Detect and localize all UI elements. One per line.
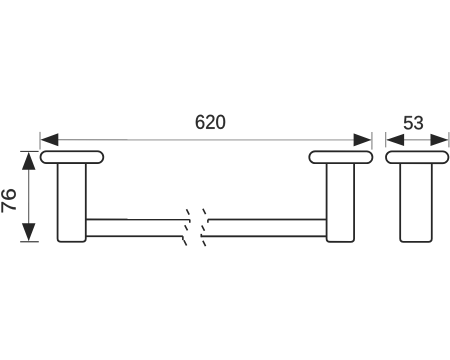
- dimension 620 line: [42, 139, 371, 141]
- towel bar top line right segment: [208, 218, 326, 220]
- break mark right dash 2: [202, 225, 205, 230]
- break end tick bottom-right: [200, 234, 202, 237]
- dimension 76 top arrowhead: [22, 152, 36, 170]
- break mark right dash 3: [203, 241, 206, 246]
- dimension 620 label: [196, 115, 225, 129]
- dimension 620 right arrowhead: [354, 133, 372, 146]
- towel bar bottom line left segment: [86, 235, 183, 237]
- dimension 620 left arrowhead: [40, 133, 58, 146]
- side view wall plate: [386, 151, 448, 163]
- break end tick top-right: [207, 219, 209, 222]
- dimension 76 line: [28, 153, 30, 241]
- left post: [58, 159, 86, 242]
- break mark left dash 1: [186, 209, 189, 214]
- break mark left dash 3: [184, 240, 187, 245]
- right wall plate: [309, 151, 372, 163]
- dimension 76 bottom arrowhead: [22, 223, 36, 241]
- break mark right dash 1: [203, 209, 206, 214]
- side view post: [400, 159, 432, 242]
- break mark left dash 2: [185, 225, 188, 230]
- dimension 53 label: [404, 116, 423, 130]
- dimension 53 left arrowhead: [386, 134, 404, 146]
- left wall plate: [41, 151, 104, 163]
- towel bar bottom line right segment: [201, 235, 326, 237]
- break end tick top-left: [189, 219, 191, 222]
- break end tick bottom-left: [182, 236, 184, 240]
- dimension 76 bottom extension line: [20, 241, 39, 243]
- dimension 620 right extension line: [371, 132, 373, 150]
- dimension 76 top extension line: [20, 150, 38, 152]
- dimension 53 right extension line: [448, 132, 450, 147]
- dimension 53 right arrowhead: [431, 134, 449, 146]
- right post: [327, 159, 355, 242]
- dimension 620 left extension line: [39, 132, 41, 150]
- dimension 53 line: [387, 139, 448, 141]
- dimension 53 left extension line: [385, 132, 387, 147]
- dimension 76 label (rotated): [1, 189, 16, 212]
- towel bar top line left segment: [86, 218, 190, 220]
